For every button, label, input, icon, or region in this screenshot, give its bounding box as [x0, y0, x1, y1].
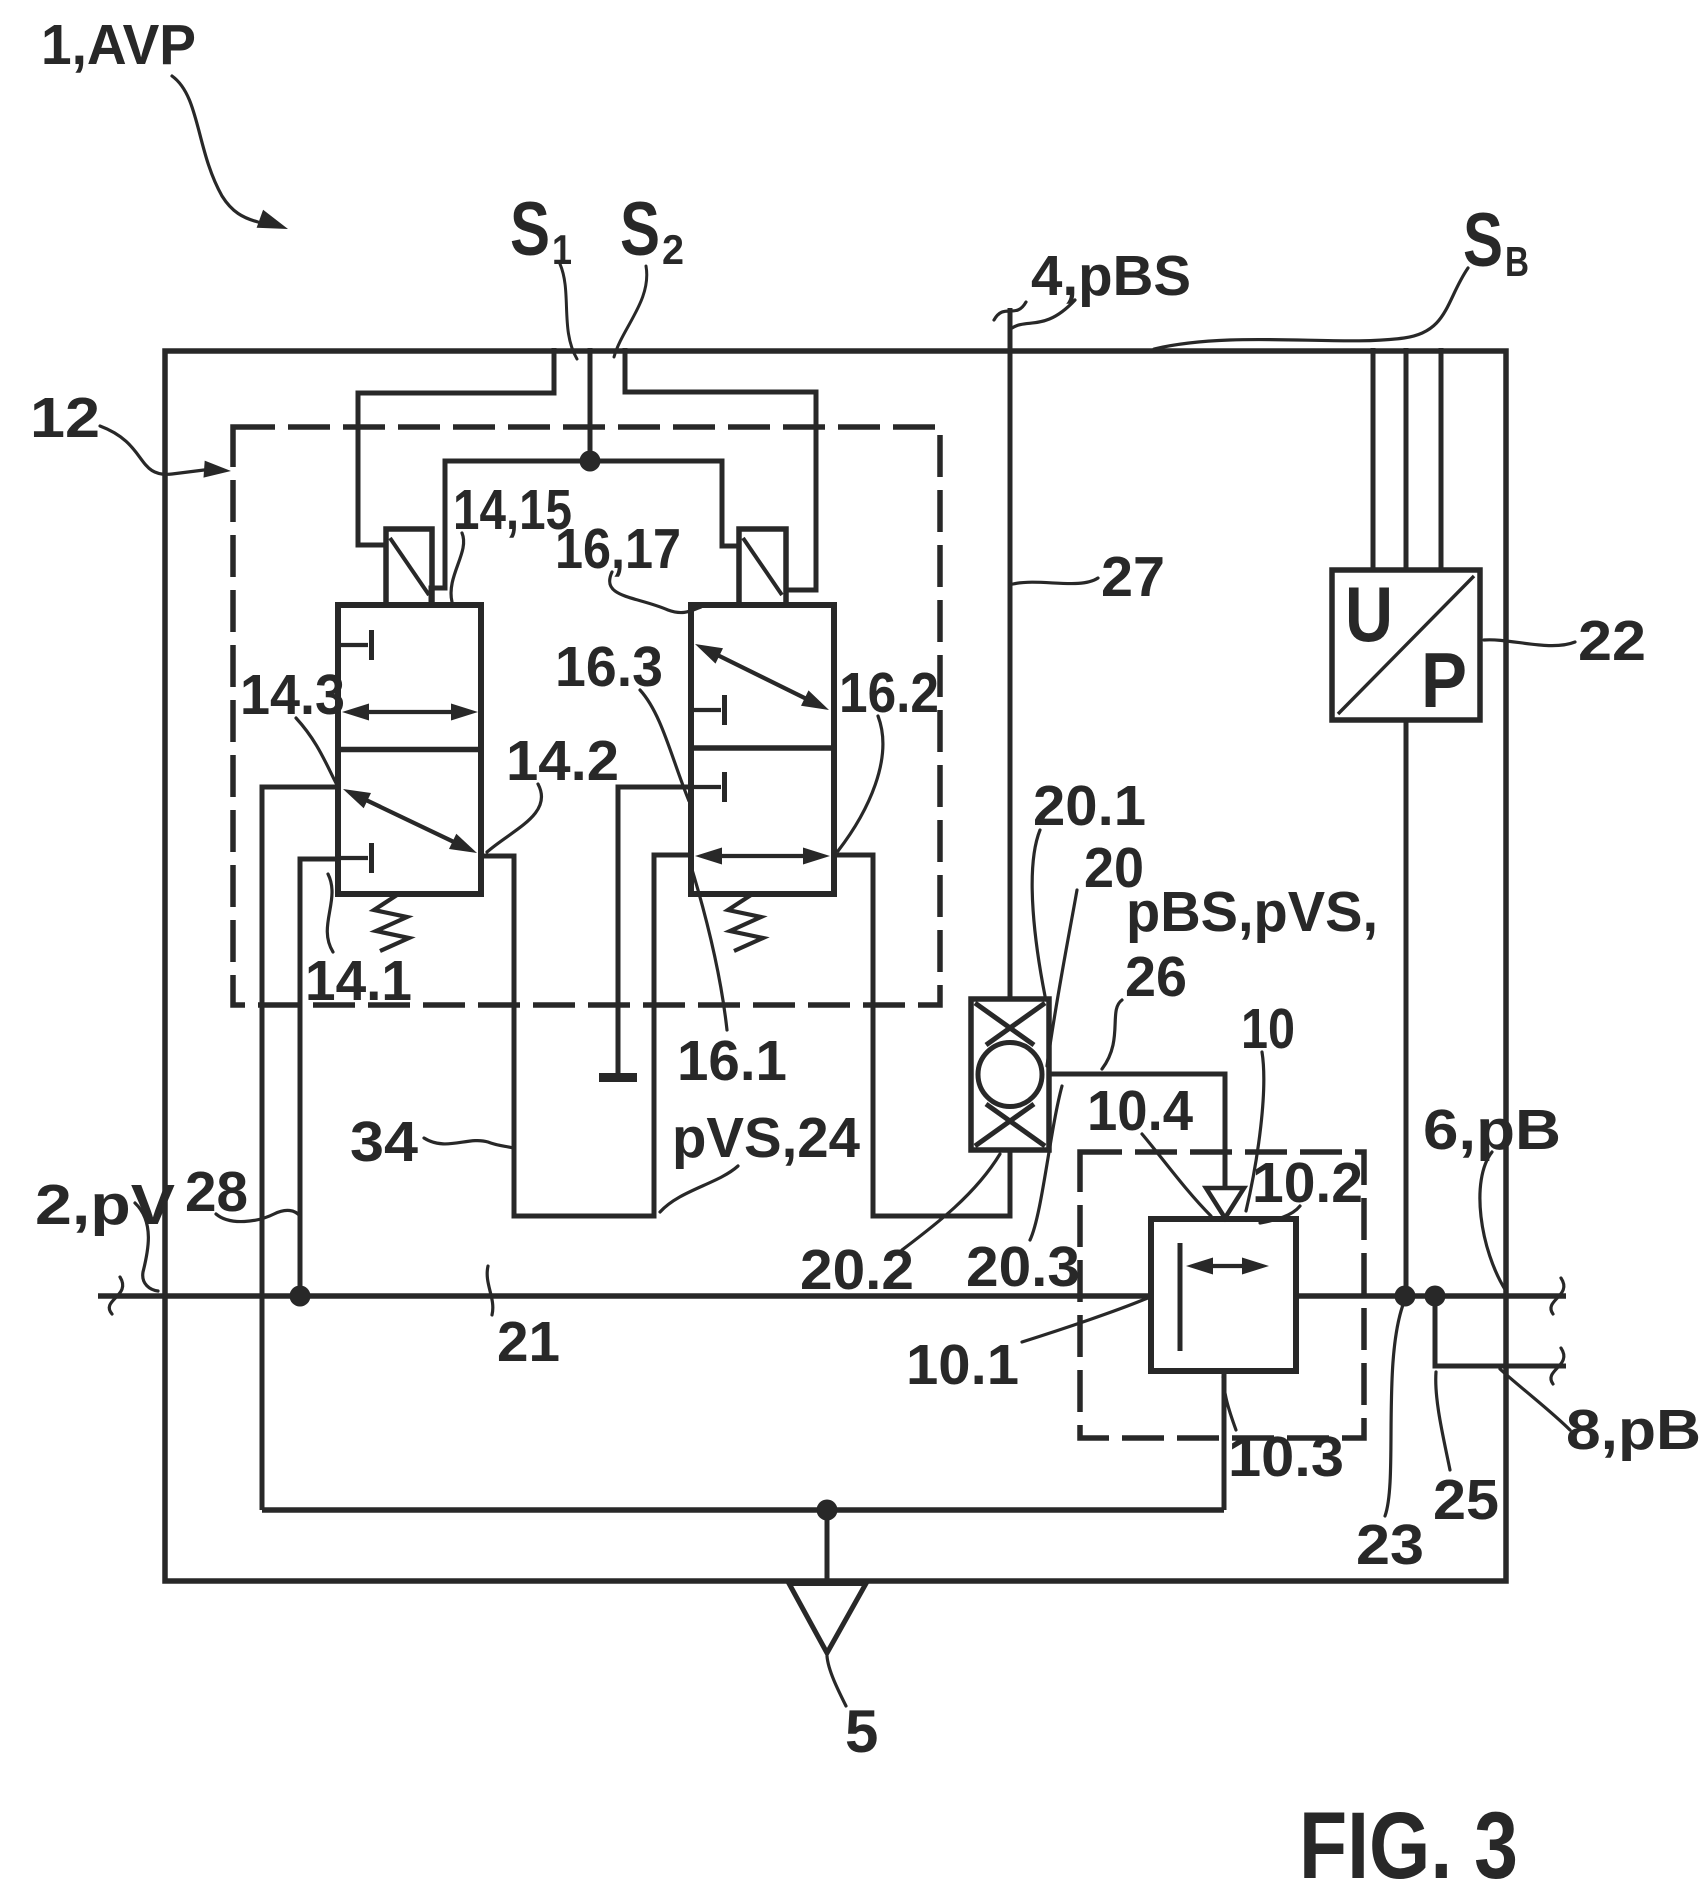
- valve 14 body: [338, 605, 481, 894]
- leader 10.3: [1223, 1377, 1236, 1430]
- svg-text:2: 2: [662, 226, 684, 273]
- shuttle valve ball circle: [978, 1043, 1042, 1107]
- leader 4,pBS: [1012, 300, 1075, 328]
- wire valve 14 supply port to rail 21: [300, 859, 338, 1296]
- svg-text:14.1: 14.1: [305, 949, 412, 1013]
- valve 16 lower flow double arrow: [703, 854, 822, 858]
- leader pVS,24: [660, 1166, 738, 1212]
- svg-text:pVS,24: pVS,24: [672, 1106, 860, 1170]
- node branch dot to port 8: [1425, 1286, 1446, 1307]
- svg-text:20.3: 20.3: [966, 1235, 1080, 1299]
- break tick at port 8,pB: [1551, 1348, 1564, 1384]
- svg-text:5: 5: [845, 1698, 878, 1765]
- solenoid pilot of valve 16: [739, 529, 786, 605]
- svg-text:16.3: 16.3: [555, 635, 663, 699]
- svg-text:28: 28: [185, 1160, 248, 1224]
- wire 28: valve 14 left port to exhaust rail: [262, 787, 338, 1510]
- leader 10.4: [1142, 1134, 1211, 1216]
- node junction on rail 21: [290, 1286, 311, 1307]
- svg-text:P: P: [1421, 636, 1467, 724]
- leader 21: [487, 1266, 493, 1315]
- svg-text:20.1: 20.1: [1033, 774, 1146, 838]
- pilot arrow 10.4 triangle: [1206, 1188, 1244, 1218]
- valve 14 upper blocked port T: [341, 643, 368, 647]
- valve 16 lower blocked port T: [694, 785, 721, 789]
- valve 10 double arrow: [1194, 1264, 1261, 1268]
- shuttle valve upper seat X: [975, 1003, 1034, 1045]
- break tick at port 6,pB: [1551, 1278, 1564, 1314]
- svg-text:21: 21: [497, 1310, 560, 1374]
- svg-text:26: 26: [1125, 945, 1187, 1009]
- relay valve 10 body: [1151, 1219, 1296, 1371]
- leader 20.1: [1032, 830, 1045, 996]
- valve 14 lower diagonal double arrow: [350, 792, 470, 849]
- svg-text:S: S: [620, 187, 660, 272]
- leader 20: [1047, 890, 1077, 1066]
- shuttle valve lower seat X: [975, 1104, 1034, 1146]
- svg-text:B: B: [1505, 238, 1529, 285]
- solenoid 16 diagonal: [743, 538, 782, 595]
- leader S1: [560, 264, 577, 359]
- valve 16 upper blocked port T: [694, 708, 721, 712]
- svg-text:pBS,pVS,: pBS,pVS,: [1126, 880, 1378, 944]
- wire sensor tap c: [1439, 348, 1444, 570]
- leader 14.1: [327, 874, 333, 952]
- svg-text:14.3: 14.3: [240, 663, 345, 727]
- valve 10 piston bar: [1178, 1243, 1183, 1351]
- dashed box around valve 10: [1080, 1152, 1364, 1438]
- spring of valve 16: [728, 895, 763, 951]
- valve 16 body: [691, 605, 834, 894]
- valve 14 lower blocked port T: [341, 856, 368, 860]
- exhaust vent triangle 5: [789, 1584, 866, 1654]
- leader 16.2: [838, 716, 883, 851]
- leader 6,pB: [1480, 1152, 1506, 1291]
- wire exhaust of valve 16: [618, 787, 691, 1073]
- svg-text:U: U: [1345, 570, 1393, 658]
- sensor 22 diagonal: [1338, 576, 1474, 714]
- valve 14 divider: [338, 747, 481, 753]
- shuttle valve 20 box: [971, 999, 1049, 1150]
- node exhaust junction dot: [817, 1500, 838, 1521]
- exhaust port bar 3: [599, 1073, 637, 1082]
- rail 21 supply 2,pV: [98, 1293, 1151, 1299]
- leader 2,pV: [135, 1203, 158, 1291]
- leader 5: [827, 1656, 846, 1706]
- svg-text:1,AVP: 1,AVP: [41, 13, 196, 77]
- node sensor tap dot on rail 6: [1395, 1286, 1416, 1307]
- wire junction to valve 14 inlet: [431, 461, 590, 608]
- break tick at port 2,pV: [109, 1277, 122, 1314]
- wire S1 down to junction: [588, 348, 593, 461]
- leader 12 with arrow: [100, 426, 204, 474]
- wire sensor tap b: [1404, 348, 1409, 570]
- leader 10.1: [1022, 1297, 1150, 1342]
- solenoid pilot of valve 14: [386, 529, 432, 605]
- outer housing box 1,AVP: [165, 351, 1506, 1581]
- leader 10.2: [1260, 1206, 1300, 1223]
- svg-text:25: 25: [1433, 1468, 1499, 1532]
- wire 25 branch to port 8,pB: [1435, 1296, 1566, 1366]
- wire 26 shuttle outlet to pilot 10.4: [1049, 1074, 1225, 1189]
- svg-text:16,17: 16,17: [555, 517, 681, 581]
- svg-text:6,pB: 6,pB: [1423, 1098, 1561, 1162]
- svg-text:FIG. 3: FIG. 3: [1299, 1793, 1518, 1888]
- leader 26: [1102, 1000, 1122, 1069]
- wire 24: valve 16 outlet to shuttle valve: [834, 855, 1010, 1216]
- leader 16.1: [690, 863, 727, 1030]
- svg-text:12: 12: [30, 386, 100, 450]
- wire sensor tap a: [1371, 348, 1376, 570]
- leader 23: [1385, 1302, 1404, 1516]
- svg-text:10.3: 10.3: [1228, 1425, 1344, 1489]
- leader 20.3: [1030, 1086, 1062, 1240]
- valve 14 upper flow double arrow: [350, 710, 470, 714]
- rail 6,pB right: [1296, 1293, 1566, 1299]
- wire 27 pBS supply from port 4: [1008, 308, 1013, 999]
- valve 16 upper diagonal double arrow: [702, 648, 822, 707]
- leader 1,AVP: [172, 76, 258, 222]
- svg-text:10: 10: [1241, 997, 1295, 1061]
- svg-text:2,pV: 2,pV: [35, 1173, 175, 1237]
- leader 8,pB: [1500, 1369, 1570, 1430]
- leader 28: [216, 1210, 300, 1221]
- pressure sensor U/P box 22: [1332, 570, 1480, 720]
- svg-text:27: 27: [1101, 545, 1165, 609]
- svg-text:1: 1: [552, 226, 572, 273]
- svg-text:S: S: [510, 187, 550, 272]
- wire exhaust stub to border: [825, 1510, 830, 1581]
- svg-text:23: 23: [1356, 1513, 1424, 1577]
- wire junction to pilot of valve 16: [590, 461, 741, 546]
- spring of valve 14: [374, 895, 409, 951]
- svg-text:34: 34: [350, 1110, 418, 1174]
- leader 22: [1484, 640, 1575, 646]
- wire S1 pipe to pilot of valve 14: [358, 348, 554, 545]
- valve 16 divider: [691, 745, 834, 751]
- wire 10.3 valve 10 bottom port: [1222, 1371, 1227, 1510]
- solenoid 14 diagonal: [390, 538, 429, 595]
- leader SB: [1154, 268, 1468, 349]
- wire 32 sensor line to rail 6: [1404, 720, 1409, 1296]
- exhaust rail to port 5: [262, 1507, 1224, 1513]
- svg-text:14.2: 14.2: [506, 729, 619, 793]
- leader 25: [1436, 1372, 1450, 1470]
- node S1 junction dot: [580, 451, 601, 472]
- svg-text:10.2: 10.2: [1252, 1151, 1363, 1215]
- svg-text:10.1: 10.1: [906, 1333, 1019, 1397]
- svg-text:8,pB: 8,pB: [1566, 1398, 1701, 1462]
- wire 34 crossover channel: [481, 855, 691, 1216]
- leader 14.2: [487, 784, 542, 852]
- break tick at port 4,pBS: [994, 302, 1026, 320]
- leader 16,17: [610, 572, 701, 613]
- svg-text:S: S: [1463, 198, 1503, 283]
- svg-text:16.2: 16.2: [839, 661, 939, 725]
- dashed box 12 (valve group): [233, 427, 940, 1005]
- leader 16.3: [640, 690, 689, 801]
- leader 14.3: [296, 718, 337, 785]
- svg-text:22: 22: [1578, 609, 1646, 673]
- leader 27: [1013, 578, 1098, 584]
- leader 20.2: [902, 1154, 1000, 1250]
- leader 34: [424, 1138, 513, 1148]
- svg-text:16.1: 16.1: [677, 1029, 787, 1093]
- svg-text:20.2: 20.2: [800, 1238, 914, 1302]
- wire S2 pipe to valve 16 inlet: [625, 348, 816, 608]
- leader 14,15: [451, 533, 464, 602]
- leader 10: [1246, 1052, 1264, 1211]
- leader S2: [614, 266, 647, 357]
- svg-text:10.4: 10.4: [1087, 1079, 1193, 1143]
- svg-text:4,pBS: 4,pBS: [1031, 244, 1191, 308]
